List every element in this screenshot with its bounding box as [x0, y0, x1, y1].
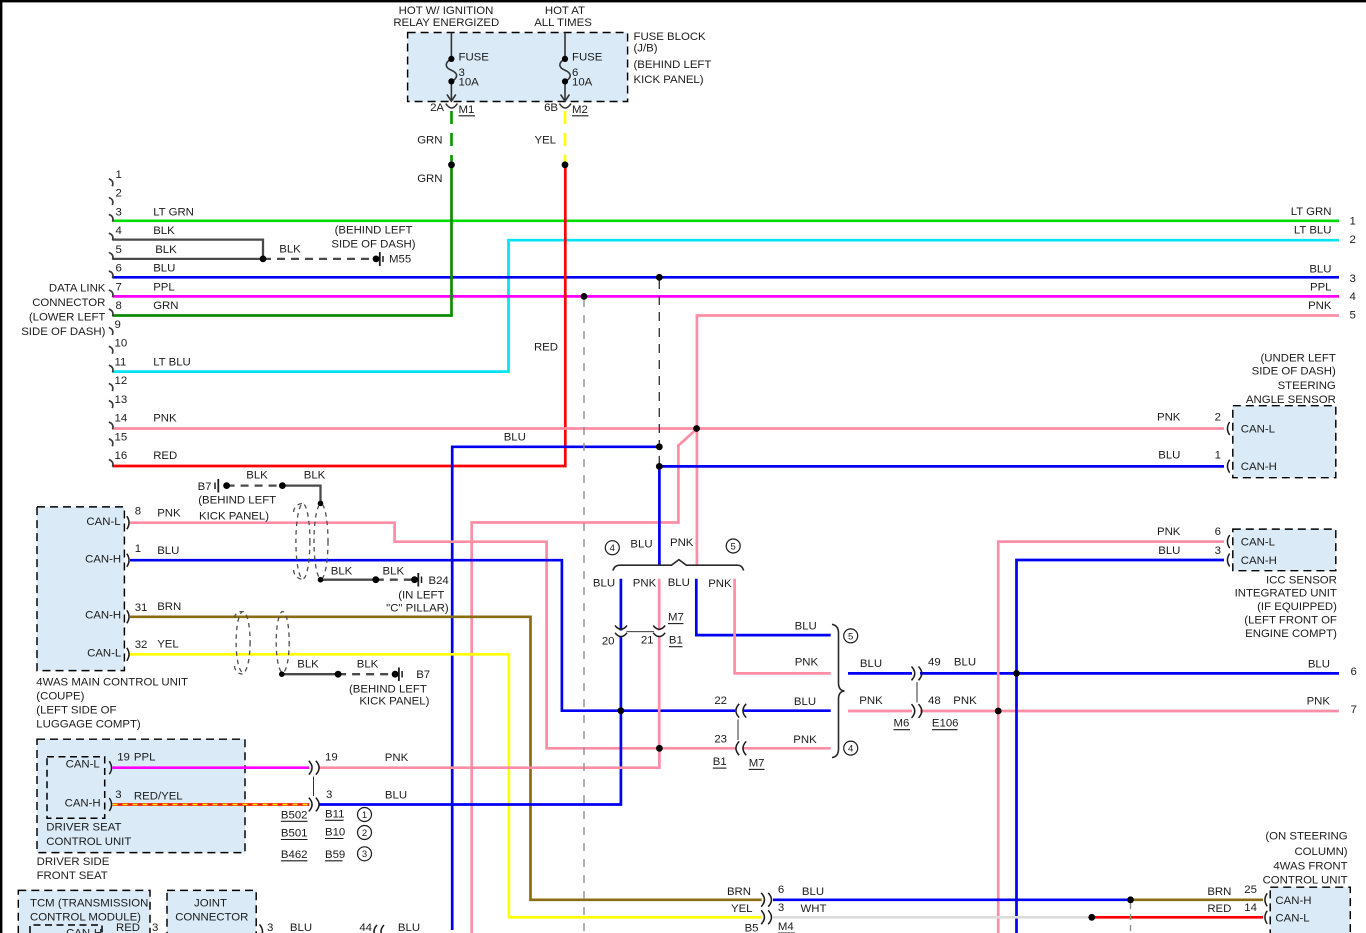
- svg-text:BLK: BLK: [155, 244, 177, 256]
- svg-text:PNK: PNK: [670, 537, 694, 549]
- svg-text:19: 19: [325, 752, 338, 764]
- svg-text:BLU: BLU: [593, 578, 615, 590]
- svg-text:BLU: BLU: [954, 657, 976, 669]
- svg-text:(IN LEFT: (IN LEFT: [398, 590, 444, 602]
- svg-text:KICK PANEL): KICK PANEL): [199, 511, 269, 523]
- svg-text:7: 7: [116, 281, 122, 293]
- svg-text:CONNECTOR: CONNECTOR: [32, 297, 105, 309]
- svg-text:PNK: PNK: [859, 695, 883, 707]
- svg-text:FUSE: FUSE: [459, 52, 490, 64]
- svg-text:M1: M1: [459, 104, 475, 116]
- svg-text:(BEHIND LEFT: (BEHIND LEFT: [349, 683, 427, 695]
- svg-text:CAN-H: CAN-H: [85, 610, 121, 622]
- svg-text:14: 14: [1244, 902, 1257, 914]
- svg-text:B7: B7: [416, 669, 430, 681]
- svg-text:PNK: PNK: [157, 507, 181, 519]
- svg-text:15: 15: [115, 431, 128, 443]
- svg-text:M4: M4: [778, 921, 794, 933]
- svg-text:BLK: BLK: [246, 469, 268, 481]
- svg-text:CAN-H: CAN-H: [1275, 895, 1311, 907]
- svg-text:3: 3: [1215, 545, 1221, 557]
- svg-text:PNK: PNK: [385, 752, 409, 764]
- svg-text:4: 4: [116, 225, 122, 237]
- svg-text:WHT: WHT: [801, 903, 827, 915]
- svg-text:LT GRN: LT GRN: [1291, 206, 1332, 218]
- svg-text:2: 2: [362, 828, 367, 839]
- svg-text:BLU: BLU: [802, 886, 824, 898]
- svg-text:STEERING: STEERING: [1278, 380, 1336, 392]
- svg-text:B7: B7: [198, 481, 212, 493]
- svg-text:B5: B5: [745, 923, 759, 933]
- svg-text:3: 3: [362, 849, 367, 860]
- svg-text:BLU: BLU: [860, 658, 882, 670]
- svg-text:PNK: PNK: [1157, 412, 1181, 424]
- svg-text:1: 1: [1350, 216, 1356, 228]
- svg-text:6B: 6B: [544, 102, 558, 114]
- svg-text:BLU: BLU: [385, 790, 407, 802]
- svg-text:(UNDER LEFT: (UNDER LEFT: [1260, 353, 1335, 365]
- svg-text:5: 5: [848, 631, 853, 642]
- svg-text:BLU: BLU: [1158, 449, 1180, 461]
- svg-text:BLU: BLU: [795, 621, 817, 633]
- svg-text:TCM (TRANSMISSION: TCM (TRANSMISSION: [30, 898, 148, 910]
- svg-text:GRN: GRN: [417, 173, 442, 185]
- svg-text:M55: M55: [389, 254, 411, 266]
- svg-text:PNK: PNK: [1157, 526, 1181, 538]
- svg-text:LT BLU: LT BLU: [153, 356, 191, 368]
- svg-text:FUSE BLOCK: FUSE BLOCK: [634, 31, 707, 43]
- svg-text:3: 3: [115, 789, 121, 801]
- svg-text:1: 1: [1215, 449, 1221, 461]
- svg-text:PNK: PNK: [793, 734, 817, 746]
- svg-text:JOINT: JOINT: [194, 898, 227, 910]
- svg-text:9: 9: [115, 319, 121, 331]
- svg-text:(BEHIND LEFT: (BEHIND LEFT: [198, 495, 276, 507]
- svg-text:4WAS MAIN CONTROL UNIT: 4WAS MAIN CONTROL UNIT: [36, 677, 188, 689]
- svg-text:BLU: BLU: [157, 545, 179, 557]
- svg-text:4: 4: [1350, 291, 1356, 303]
- svg-text:5: 5: [1350, 310, 1356, 322]
- svg-text:(BEHIND LEFT: (BEHIND LEFT: [634, 59, 712, 71]
- svg-text:6: 6: [116, 263, 122, 275]
- svg-text:10A: 10A: [572, 77, 593, 89]
- svg-text:DRIVER SEAT: DRIVER SEAT: [46, 821, 121, 833]
- svg-text:CONTROL UNIT: CONTROL UNIT: [46, 836, 131, 848]
- svg-text:49: 49: [928, 657, 941, 669]
- svg-text:31: 31: [135, 602, 148, 614]
- svg-text:LT BLU: LT BLU: [1294, 225, 1332, 237]
- svg-text:3: 3: [152, 922, 158, 933]
- svg-text:RED/YEL: RED/YEL: [134, 791, 183, 803]
- svg-text:11: 11: [115, 356, 127, 368]
- svg-text:SIDE OF DASH): SIDE OF DASH): [331, 239, 415, 251]
- svg-text:DATA LINK: DATA LINK: [49, 283, 106, 295]
- svg-text:PNK: PNK: [153, 413, 177, 425]
- svg-text:PNK: PNK: [633, 578, 657, 590]
- svg-text:CAN-L: CAN-L: [1241, 424, 1275, 436]
- svg-text:PPL: PPL: [134, 752, 156, 764]
- svg-text:8: 8: [116, 300, 122, 312]
- svg-text:BLK: BLK: [304, 469, 326, 481]
- svg-text:44: 44: [359, 922, 372, 933]
- svg-text:23: 23: [714, 733, 727, 745]
- svg-text:B10: B10: [325, 827, 345, 839]
- svg-text:2A: 2A: [430, 102, 444, 114]
- svg-text:BLK: BLK: [297, 659, 319, 671]
- svg-text:BLU: BLU: [398, 922, 420, 933]
- svg-text:CAN-H: CAN-H: [66, 928, 102, 933]
- svg-text:CAN-L: CAN-L: [87, 647, 121, 659]
- svg-text:BLU: BLU: [153, 263, 175, 275]
- svg-text:LUGGAGE COMPT): LUGGAGE COMPT): [36, 719, 141, 731]
- svg-text:(IF EQUIPPED): (IF EQUIPPED): [1257, 601, 1337, 613]
- svg-text:6: 6: [1215, 526, 1221, 538]
- svg-text:3: 3: [267, 922, 273, 933]
- svg-text:3: 3: [326, 789, 332, 801]
- svg-text:BLU: BLU: [290, 922, 312, 933]
- svg-text:E106: E106: [932, 718, 959, 730]
- svg-text:CAN-H: CAN-H: [1241, 461, 1277, 473]
- svg-text:PNK: PNK: [795, 657, 819, 669]
- svg-text:BRN: BRN: [1207, 886, 1231, 898]
- svg-text:(J/B): (J/B): [634, 43, 658, 55]
- svg-text:4WAS FRONT: 4WAS FRONT: [1273, 861, 1347, 873]
- svg-text:B462: B462: [281, 849, 308, 861]
- svg-text:KICK PANEL): KICK PANEL): [634, 74, 704, 86]
- svg-text:25: 25: [1244, 884, 1257, 896]
- svg-text:M7: M7: [668, 612, 684, 624]
- svg-text:3: 3: [778, 902, 784, 914]
- svg-text:3: 3: [1350, 273, 1356, 285]
- svg-text:(COUPE): (COUPE): [36, 691, 84, 703]
- svg-text:8: 8: [135, 506, 141, 518]
- svg-text:SIDE OF DASH): SIDE OF DASH): [1252, 365, 1336, 377]
- svg-text:7: 7: [1351, 704, 1357, 716]
- svg-text:HOT AT: HOT AT: [545, 5, 585, 17]
- svg-text:SIDE OF DASH): SIDE OF DASH): [21, 326, 105, 338]
- svg-text:BLK: BLK: [383, 566, 405, 578]
- svg-text:FUSE: FUSE: [572, 52, 603, 64]
- svg-text:YEL: YEL: [534, 135, 556, 147]
- svg-text:GRN: GRN: [417, 135, 442, 147]
- svg-text:B11: B11: [325, 808, 344, 820]
- svg-text:RED: RED: [534, 342, 558, 354]
- svg-text:BLU: BLU: [1158, 545, 1180, 557]
- svg-text:HOT W/ IGNITION: HOT W/ IGNITION: [399, 5, 494, 17]
- svg-text:RELAY ENERGIZED: RELAY ENERGIZED: [393, 17, 499, 29]
- svg-text:B59: B59: [325, 849, 345, 861]
- svg-text:(LEFT SIDE OF: (LEFT SIDE OF: [36, 704, 116, 716]
- svg-text:48: 48: [928, 695, 941, 707]
- svg-text:FRONT SEAT: FRONT SEAT: [37, 870, 108, 882]
- svg-text:CONTROL UNIT: CONTROL UNIT: [1263, 875, 1348, 887]
- svg-text:10A: 10A: [459, 77, 480, 89]
- svg-text:1: 1: [135, 543, 141, 555]
- svg-text:CAN-L: CAN-L: [66, 759, 100, 771]
- svg-text:B1: B1: [669, 635, 683, 647]
- svg-text:LT GRN: LT GRN: [153, 206, 194, 218]
- svg-text:RED: RED: [153, 450, 177, 462]
- svg-text:6: 6: [778, 884, 784, 896]
- svg-text:10: 10: [115, 338, 128, 350]
- svg-text:14: 14: [115, 413, 128, 425]
- svg-text:13: 13: [115, 394, 128, 406]
- svg-text:B501: B501: [281, 828, 308, 840]
- svg-text:PNK: PNK: [1307, 696, 1331, 708]
- svg-text:M7: M7: [749, 757, 765, 769]
- svg-text:21: 21: [641, 635, 654, 647]
- svg-text:BLK: BLK: [153, 225, 175, 237]
- svg-text:BLK: BLK: [357, 659, 379, 671]
- svg-text:CAN-L: CAN-L: [1241, 537, 1275, 549]
- svg-text:(LOWER LEFT: (LOWER LEFT: [29, 312, 106, 324]
- svg-text:12: 12: [115, 375, 128, 387]
- svg-text:GRN: GRN: [153, 300, 178, 312]
- svg-text:BLU: BLU: [794, 696, 816, 708]
- svg-text:(BEHIND LEFT: (BEHIND LEFT: [335, 225, 413, 237]
- svg-text:BRN: BRN: [727, 886, 751, 898]
- svg-text:ICC SENSOR: ICC SENSOR: [1266, 574, 1337, 586]
- svg-text:22: 22: [714, 695, 727, 707]
- svg-text:BLU: BLU: [630, 539, 652, 551]
- svg-text:ANGLE SENSOR: ANGLE SENSOR: [1246, 394, 1336, 406]
- svg-text:PNK: PNK: [708, 578, 732, 590]
- svg-text:1: 1: [116, 169, 122, 181]
- svg-text:DRIVER SIDE: DRIVER SIDE: [37, 856, 110, 868]
- svg-text:4: 4: [610, 543, 615, 554]
- svg-text:1: 1: [362, 810, 367, 821]
- svg-text:5: 5: [731, 541, 736, 552]
- svg-text:B1: B1: [713, 756, 727, 768]
- svg-text:BLU: BLU: [1309, 263, 1331, 275]
- svg-text:B502: B502: [281, 809, 308, 821]
- svg-text:KICK PANEL): KICK PANEL): [359, 696, 429, 708]
- svg-text:4: 4: [848, 744, 853, 755]
- svg-text:6: 6: [1351, 666, 1357, 678]
- svg-text:PNK: PNK: [953, 695, 977, 707]
- svg-text:(ON STEERING: (ON STEERING: [1265, 831, 1347, 843]
- svg-text:PPL: PPL: [153, 281, 175, 293]
- svg-text:M2: M2: [572, 104, 588, 116]
- svg-text:YEL: YEL: [731, 903, 753, 915]
- svg-text:2: 2: [1215, 412, 1221, 424]
- svg-text:PPL: PPL: [1310, 281, 1332, 293]
- svg-text:INTEGRATED UNIT: INTEGRATED UNIT: [1235, 588, 1337, 600]
- svg-text:BLU: BLU: [1308, 659, 1330, 671]
- svg-text:CAN-H: CAN-H: [65, 798, 101, 810]
- svg-text:RED: RED: [116, 922, 140, 933]
- svg-text:COLUMN): COLUMN): [1294, 846, 1347, 858]
- svg-text:BLK: BLK: [331, 566, 353, 578]
- svg-text:BLK: BLK: [279, 244, 301, 256]
- svg-text:CAN-L: CAN-L: [86, 516, 120, 528]
- svg-text:2: 2: [1350, 234, 1356, 246]
- svg-text:16: 16: [115, 450, 128, 462]
- svg-text:CAN-L: CAN-L: [1275, 913, 1309, 925]
- svg-text:32: 32: [135, 639, 148, 651]
- svg-text:M6: M6: [894, 718, 910, 730]
- svg-text:CAN-H: CAN-H: [85, 554, 121, 566]
- svg-text:3: 3: [116, 206, 122, 218]
- svg-text:ALL TIMES: ALL TIMES: [534, 17, 592, 29]
- svg-text:ENGINE COMPT): ENGINE COMPT): [1245, 628, 1337, 640]
- svg-text:PNK: PNK: [1308, 300, 1332, 312]
- svg-text:(LEFT FRONT OF: (LEFT FRONT OF: [1244, 615, 1337, 627]
- svg-text:BLU: BLU: [668, 577, 690, 589]
- svg-text:2: 2: [116, 188, 122, 200]
- svg-text:CONNECTOR: CONNECTOR: [175, 911, 248, 923]
- svg-text:"C" PILLAR): "C" PILLAR): [386, 602, 449, 614]
- svg-text:20: 20: [602, 635, 615, 647]
- svg-text:BRN: BRN: [157, 601, 181, 613]
- svg-text:RED: RED: [1207, 903, 1231, 915]
- svg-text:BLU: BLU: [504, 431, 526, 443]
- svg-text:CAN-H: CAN-H: [1241, 555, 1277, 567]
- svg-text:5: 5: [116, 244, 122, 256]
- svg-text:19: 19: [117, 752, 130, 764]
- svg-text:B24: B24: [429, 575, 449, 587]
- svg-text:YEL: YEL: [157, 639, 179, 651]
